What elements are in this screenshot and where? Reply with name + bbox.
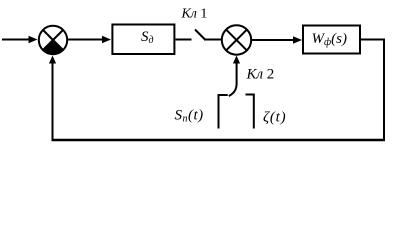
cross diagonal 1 of U1 <box>43 30 63 50</box>
arrowhead into Wf block <box>293 36 302 44</box>
wire switch Kl1 to multiplier <box>204 39 221 41</box>
block Sd (sensor) <box>112 25 174 55</box>
arrowhead into Sd block <box>102 36 111 44</box>
contact terminal zeta (right bracket) <box>246 95 254 129</box>
cross diagonal 1 of U2 <box>226 30 247 51</box>
wire summing junction to Sd block <box>68 39 104 41</box>
block Wf(s) (filter) <box>303 26 360 54</box>
arrowhead switch Kl2 into multiplier <box>233 56 240 64</box>
wire Wf block to right corner <box>361 39 385 41</box>
svg-text:Sп(t): Sп(t) <box>175 108 204 125</box>
svg-text:ζ(t): ζ(t) <box>263 110 286 126</box>
wire feedback right vertical <box>383 39 385 141</box>
svg-text:Кл 1: Кл 1 <box>181 7 208 22</box>
switch Kl1 lever (open contact) <box>195 30 205 40</box>
arrowhead feedback into summing junction <box>49 56 56 64</box>
wire Sd block to switch Kl1 <box>176 39 192 41</box>
summing junction U1 (mixer circle with cross) <box>39 26 67 54</box>
wire feedback left vertical <box>52 62 54 142</box>
cross diagonal 2 of U1 <box>43 30 63 50</box>
arrowhead into summing junction <box>29 36 38 44</box>
switch Kl2 lever wire <box>229 62 237 96</box>
wire multiplier to Wf block <box>252 39 295 41</box>
svg-text:Кл 2: Кл 2 <box>246 67 275 83</box>
filled bottom sector of U1 <box>43 40 63 54</box>
contact terminal Sp (left bracket) <box>219 95 228 129</box>
wire input signal <box>2 39 30 41</box>
multiplier U2 (mixer circle with cross) <box>222 25 251 54</box>
cross diagonal 2 of U2 <box>226 30 247 51</box>
wire feedback bottom horizontal <box>52 139 386 142</box>
